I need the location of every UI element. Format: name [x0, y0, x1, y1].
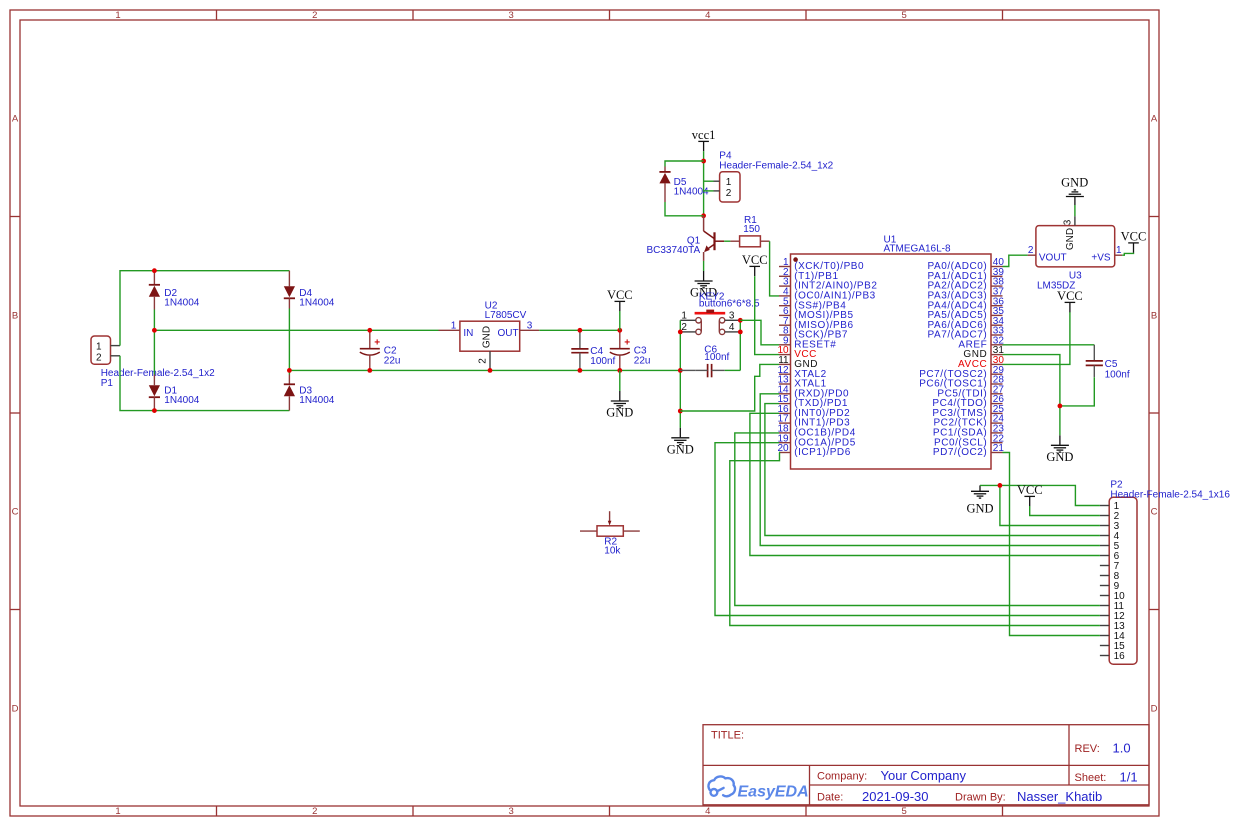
svg-text:22u: 22u: [384, 356, 401, 367]
svg-text:22u: 22u: [634, 356, 651, 367]
label C2: [384, 346, 401, 367]
label D4: [299, 288, 334, 309]
svg-text:1.0: 1.0: [1113, 741, 1131, 756]
junction: [617, 328, 622, 333]
svg-text:Header-Female-2.54_1x16: Header-Female-2.54_1x16: [1110, 489, 1230, 500]
junction: [578, 368, 583, 373]
label R2: [604, 537, 621, 557]
svg-text:TITLE:: TITLE:: [711, 730, 744, 742]
capacitor C6: [680, 364, 740, 377]
svg-text:2: 2: [312, 806, 317, 817]
svg-text:150: 150: [743, 224, 760, 235]
label D2: [164, 288, 199, 309]
svg-text:4: 4: [705, 10, 710, 21]
svg-text:GND: GND: [1046, 450, 1073, 464]
capacitor C2: [360, 330, 381, 370]
connector P4: [704, 172, 740, 202]
wire U1 pin40 to U3 VOUT: [1003, 255, 1028, 266]
label D1: [164, 385, 199, 406]
svg-text:+: +: [374, 337, 380, 348]
svg-text:2: 2: [726, 188, 732, 199]
wire PD3 to P2 pin11: [735, 433, 1100, 606]
wire PD5 to P2 pin13: [730, 453, 1100, 626]
svg-text:3: 3: [509, 10, 514, 21]
wire AREF to C5: [1003, 344, 1095, 346]
svg-text:1: 1: [115, 806, 120, 817]
svg-text:1: 1: [726, 177, 732, 188]
potentiometer R2: [580, 511, 640, 536]
label C4: [590, 346, 615, 367]
wire Q1 base to R1: [724, 240, 730, 242]
label P4: [719, 150, 833, 171]
svg-text:GND: GND: [1061, 176, 1088, 190]
svg-text:1: 1: [451, 321, 457, 332]
svg-text:button6*6*8.5: button6*6*8.5: [699, 299, 760, 310]
svg-text:10k: 10k: [604, 545, 621, 556]
capacitor C3: [610, 330, 631, 370]
regulator U2 L7805CV: [439, 321, 540, 371]
ground below C3: [611, 391, 629, 408]
resistor R1: [730, 236, 769, 247]
junction gnd P2: [998, 483, 1003, 488]
svg-text:Header-Female-2.54_1x2: Header-Female-2.54_1x2: [101, 368, 215, 379]
svg-text:VCC: VCC: [1017, 483, 1043, 497]
diode D1: [149, 375, 160, 411]
wire vcc1 vertical: [703, 151, 705, 216]
diode D4: [284, 271, 295, 309]
sensor U3 LM35DZ: [1028, 216, 1123, 267]
junction: [152, 408, 157, 413]
svg-text:4: 4: [705, 806, 710, 817]
wire AC2 bottom: [120, 356, 289, 411]
svg-text:2: 2: [477, 358, 488, 364]
wire KEY2 to RESET pin9: [740, 320, 779, 345]
svg-text:1N4004: 1N4004: [299, 395, 334, 406]
svg-text:+: +: [624, 337, 630, 348]
svg-text:5: 5: [902, 806, 907, 817]
capacitor C5: [1086, 345, 1103, 377]
svg-text:L7805CV: L7805CV: [485, 310, 527, 321]
ground near P2: [966, 485, 993, 515]
svg-text:IN: IN: [463, 328, 473, 339]
wire V+ rail to U2 IN: [154, 329, 438, 331]
junction: [738, 330, 743, 335]
junction vcc1/D5: [701, 159, 706, 164]
svg-text:2: 2: [1028, 245, 1034, 256]
svg-text:Date:: Date:: [817, 792, 843, 804]
svg-text:ATMEGA16L-8: ATMEGA16L-8: [884, 244, 951, 255]
diode D5: [659, 167, 670, 203]
label R1: [743, 215, 760, 235]
wire GND rail: [289, 369, 680, 371]
wire VCC flag to rail: [619, 311, 621, 330]
wire gnd to P2 pin3: [1000, 485, 1100, 525]
svg-text:1: 1: [681, 311, 687, 322]
wire D2 to node: [153, 310, 155, 331]
IC U1 ATMEGA16L-8: [777, 254, 1004, 469]
svg-text:B: B: [12, 310, 18, 321]
wire D4 to node: [288, 309, 290, 371]
svg-text:A: A: [1151, 114, 1158, 125]
junction: [678, 368, 683, 373]
junction: [617, 368, 622, 373]
label C5: [1105, 359, 1130, 380]
junction: [367, 328, 372, 333]
svg-text:100nf: 100nf: [704, 352, 729, 363]
wire AC1 top: [120, 271, 289, 346]
svg-text:(ICP1)/PD6: (ICP1)/PD6: [794, 447, 851, 458]
svg-text:1N4004: 1N4004: [164, 297, 199, 308]
svg-text:Header-Female-2.54_1x2: Header-Female-2.54_1x2: [719, 161, 833, 172]
wire VCC to U1 pin10: [755, 276, 779, 354]
junction gnd node: [1058, 404, 1063, 409]
svg-text:2: 2: [96, 352, 102, 363]
connector P2: [1100, 497, 1137, 664]
capacitor C4: [571, 330, 588, 370]
svg-text:1N4004: 1N4004: [164, 395, 199, 406]
junction: [287, 368, 292, 373]
ground below Q1: [695, 271, 713, 288]
wire to D5 anode: [665, 161, 704, 167]
wire PD0 to P2 pin5: [760, 394, 1100, 546]
wire to ground below C3: [619, 370, 621, 391]
svg-text:Your Company: Your Company: [881, 768, 967, 783]
svg-text:C: C: [12, 507, 19, 518]
junction: [152, 328, 157, 333]
svg-text:VCC: VCC: [1121, 230, 1147, 244]
diode D2: [149, 271, 160, 310]
svg-text:4: 4: [729, 322, 735, 333]
svg-text:16: 16: [1114, 651, 1126, 662]
svg-text:Sheet:: Sheet:: [1075, 772, 1107, 784]
svg-text:VOUT: VOUT: [1039, 253, 1067, 264]
label D5: [674, 177, 709, 198]
label U1: [884, 235, 951, 255]
wire node to D1: [153, 330, 155, 374]
wire gnd to P2 pin1: [980, 485, 1100, 505]
label D3: [299, 385, 334, 406]
wire U3 +VS to VCC: [1122, 253, 1133, 256]
wire node to D3: [288, 370, 290, 374]
svg-text:2021-09-30: 2021-09-30: [862, 789, 929, 804]
svg-text:A: A: [12, 114, 19, 125]
svg-text:EasyEDA: EasyEDA: [738, 784, 809, 801]
junction D5/Q1: [701, 213, 706, 218]
label C6: [704, 344, 729, 363]
wire PD4 to P2 pin12: [715, 443, 1100, 616]
svg-text:1: 1: [1116, 245, 1122, 256]
svg-text:3: 3: [729, 311, 735, 322]
svg-text:1/1: 1/1: [1120, 770, 1138, 785]
svg-text:VCC: VCC: [742, 253, 768, 267]
label U3: [1037, 270, 1082, 291]
svg-text:3: 3: [1062, 219, 1073, 225]
wire VCC to P2 pin2: [1030, 506, 1100, 516]
svg-text:P1: P1: [101, 378, 114, 389]
svg-text:B: B: [1151, 310, 1157, 321]
wire Q1 emitter to gnd: [703, 261, 705, 271]
svg-text:GND: GND: [1065, 228, 1076, 250]
junction: [367, 368, 372, 373]
svg-text:2: 2: [312, 10, 317, 21]
wire KEY2 right rail: [739, 320, 741, 370]
svg-text:C: C: [1151, 507, 1158, 518]
svg-text:D: D: [1151, 703, 1158, 714]
svg-text:3: 3: [509, 806, 514, 817]
svg-text:GND: GND: [482, 326, 493, 348]
svg-text:1N4004: 1N4004: [674, 187, 709, 198]
svg-text:100nf: 100nf: [1105, 369, 1130, 380]
svg-text:GND: GND: [667, 442, 694, 456]
transistor Q1: [704, 216, 725, 261]
ground flag above U3: [1061, 176, 1088, 206]
svg-text:vcc1: vcc1: [692, 128, 716, 142]
svg-text:+VS: +VS: [1091, 253, 1111, 264]
svg-text:5: 5: [902, 10, 907, 21]
ground below U1 right: [1051, 435, 1069, 452]
connector P1: [91, 336, 120, 364]
svg-text:OUT: OUT: [498, 328, 519, 339]
svg-text:LM35DZ: LM35DZ: [1037, 281, 1075, 292]
svg-text:Company:: Company:: [817, 771, 867, 783]
label Q1: [646, 236, 700, 256]
svg-text:BC33740TA: BC33740TA: [646, 245, 700, 256]
label U2: [485, 301, 527, 321]
wire U1 pin31 GND down: [1003, 355, 1060, 436]
svg-text:PD7/(OC2): PD7/(OC2): [933, 447, 987, 458]
junction: [152, 268, 157, 273]
svg-text:D: D: [12, 703, 19, 714]
junction: [578, 328, 583, 333]
wire PD1 to P2 pin4: [765, 404, 1100, 536]
wire KEY2 left rail to gnd: [679, 320, 681, 428]
svg-text:GND: GND: [966, 502, 993, 516]
svg-text:VCC: VCC: [607, 288, 633, 302]
svg-text:100nf: 100nf: [590, 356, 615, 367]
junction: [678, 409, 683, 414]
wire gnd to U3 pin3: [1074, 205, 1076, 216]
wire PD7 to P2 pin14: [1003, 453, 1100, 636]
label P2: [1110, 480, 1230, 501]
wire GND to U1 pin11: [680, 364, 779, 411]
svg-text:1: 1: [115, 10, 120, 21]
svg-text:Nasser_Khatib: Nasser_Khatib: [1017, 789, 1102, 804]
label C3: [634, 346, 651, 367]
wire C5 to gnd node: [1060, 377, 1094, 406]
pushbutton S2 KEY2: [680, 310, 740, 335]
wire U2 OUT / VCC: [539, 329, 620, 331]
wire AVCC to VCC flag: [1003, 312, 1070, 364]
junction: [488, 368, 493, 373]
svg-text:1N4004: 1N4004: [299, 297, 334, 308]
wire R1 to U1 pin4: [770, 241, 779, 296]
junction: [678, 330, 683, 335]
wire D5 cathode return: [665, 202, 704, 216]
svg-text:GND: GND: [606, 406, 633, 420]
label KEY2: [699, 292, 760, 310]
svg-text:3: 3: [527, 321, 533, 332]
wire PD2 to P2 pin6: [750, 413, 1100, 555]
junction: [738, 318, 743, 323]
svg-text:REV:: REV:: [1075, 743, 1100, 755]
diode D3: [284, 375, 295, 411]
svg-text:1: 1: [96, 341, 102, 352]
ground below KEY2: [671, 428, 689, 445]
svg-text:Drawn By:: Drawn By:: [955, 792, 1006, 804]
label P1: [101, 368, 215, 389]
